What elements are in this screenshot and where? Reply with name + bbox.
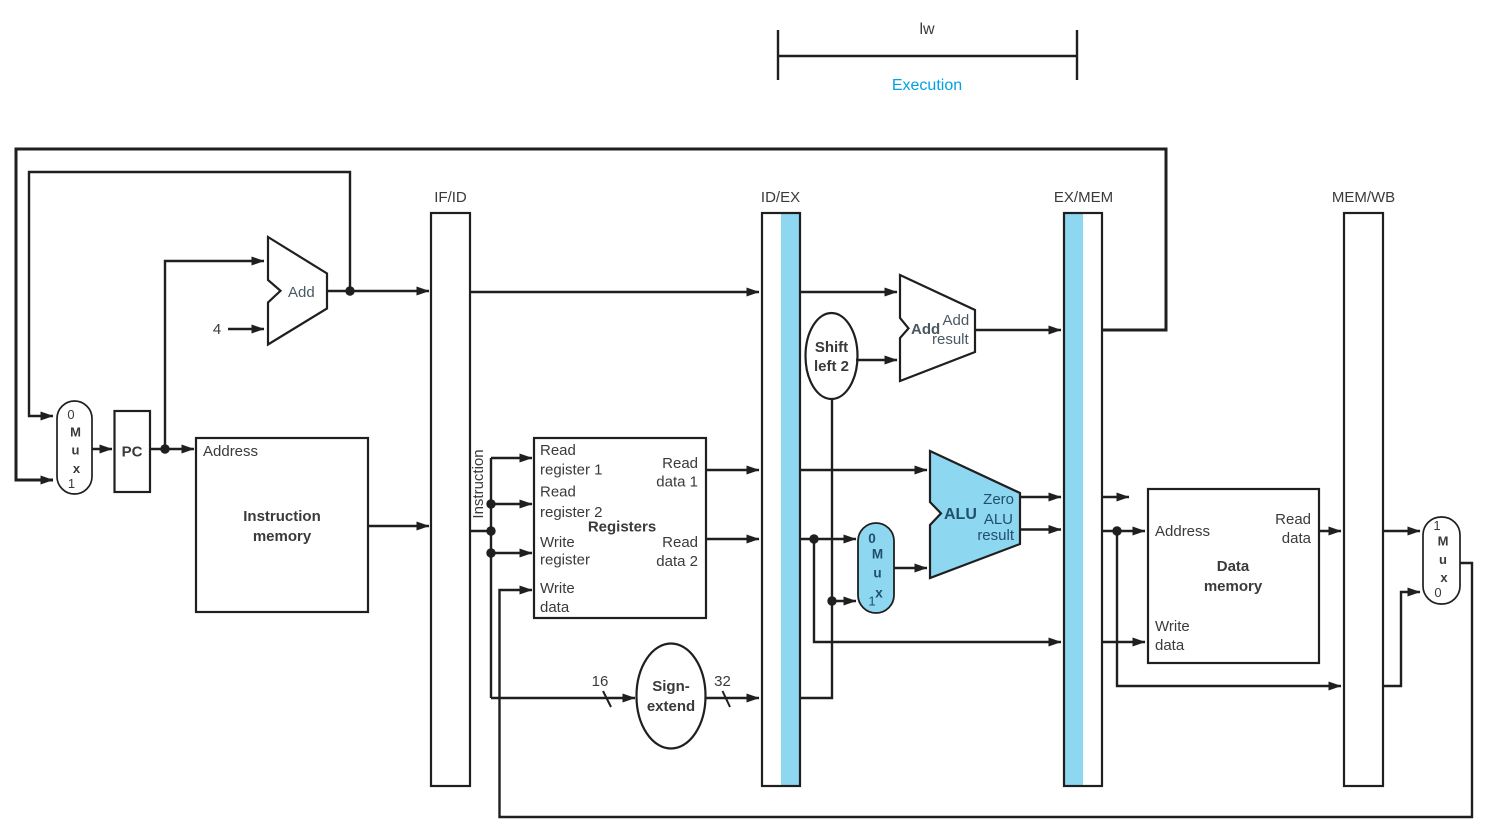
svg-text:PC: PC [122, 444, 143, 461]
svg-text:M: M [872, 547, 883, 562]
svg-text:IF/ID: IF/ID [434, 189, 467, 206]
node ALU result junction [1112, 526, 1121, 535]
wire ALU result bypass to MEM/WB [1117, 531, 1341, 686]
svg-text:Write: Write [540, 580, 575, 597]
wire Add result to EX/MEM [975, 329, 1061, 331]
svg-text:extend: extend [647, 698, 695, 715]
lw stage bracket [778, 21, 1077, 80]
svg-text:result: result [977, 527, 1015, 544]
wire PC to instruction memory [150, 448, 194, 450]
wire ALU result from MEM/WB to mux M3 [1383, 592, 1420, 686]
wire instruction memory to IF/ID [368, 525, 429, 527]
svg-text:data: data [540, 599, 570, 616]
wire PC+4 from IF/ID to ID/EX [470, 291, 759, 293]
wire write data to data memory [1102, 641, 1145, 643]
wire immediate to sign-extend [491, 673, 635, 707]
node instruction junction 3 [486, 548, 495, 557]
mux M3 (write-back select) [1423, 517, 1460, 604]
wire read data 2 to ID/EX [706, 538, 759, 540]
svg-text:ID/EX: ID/EX [761, 189, 800, 206]
svg-text:Write: Write [1155, 618, 1190, 635]
svg-text:x: x [73, 461, 81, 476]
wire read data to MEM/WB [1319, 530, 1341, 532]
svg-text:register: register [540, 552, 590, 569]
pipeline register ID/EX [761, 189, 800, 786]
svg-text:Read: Read [662, 534, 698, 551]
svg-text:lw: lw [919, 21, 935, 38]
svg-text:Data: Data [1217, 558, 1250, 575]
wire PC value to Add [165, 261, 264, 449]
node PC output junction [160, 444, 169, 453]
svg-text:Zero: Zero [983, 491, 1014, 508]
svg-text:ALU: ALU [944, 506, 977, 523]
wire read data 1 to ID/EX [706, 469, 759, 471]
svg-text:4: 4 [213, 321, 221, 338]
wire read data from MEM/WB to mux M3 [1383, 530, 1420, 532]
node Add output junction [345, 286, 354, 295]
mux M2 (ALU operand B) [858, 523, 894, 613]
svg-text:ALU: ALU [984, 511, 1013, 528]
svg-text:1: 1 [68, 476, 75, 491]
svg-text:memory: memory [1204, 578, 1263, 595]
svg-text:u: u [873, 566, 881, 581]
svg-text:M: M [70, 425, 81, 440]
adder Add (branch target) [900, 275, 975, 381]
svg-text:data: data [1282, 530, 1312, 547]
wire ALU result to EX/MEM [1020, 528, 1061, 530]
node immediate junction [827, 596, 836, 605]
svg-text:1: 1 [1433, 518, 1440, 533]
PC register [115, 411, 151, 492]
svg-text:M: M [1438, 534, 1449, 549]
svg-text:Instruction: Instruction [243, 508, 321, 525]
wire ALU zero to EX/MEM [1020, 496, 1061, 498]
wire PC+4 feedback (Add output to PC mux input 0) [29, 172, 350, 416]
wire immediate to mux M2 [832, 600, 856, 602]
svg-text:Shift: Shift [815, 339, 848, 356]
svg-text:register 1: register 1 [540, 462, 603, 479]
svg-text:16: 16 [592, 673, 609, 690]
wire read data 2 from ID/EX to mux M2 [800, 538, 856, 540]
ALU [930, 451, 1020, 578]
svg-text:Address: Address [203, 443, 258, 460]
svg-text:data 1: data 1 [656, 474, 698, 491]
svg-text:Address: Address [1155, 523, 1210, 540]
svg-text:data: data [1155, 637, 1185, 654]
svg-text:x: x [875, 586, 883, 601]
svg-text:Add: Add [943, 312, 970, 329]
wire write-back (mux M3 output to Write data) [500, 563, 1473, 817]
wire mux M1 to PC [92, 448, 112, 450]
registers file [534, 438, 706, 618]
svg-text:Execution: Execution [892, 77, 962, 94]
wire Add output to IF/ID [327, 290, 429, 292]
node read data 2 junction [809, 534, 818, 543]
svg-text:result: result [932, 331, 970, 348]
instruction memory [196, 438, 368, 612]
svg-text:u: u [72, 443, 80, 458]
shift left 2 unit [806, 313, 858, 399]
svg-text:x: x [1440, 570, 1448, 585]
svg-text:EX/MEM: EX/MEM [1054, 189, 1113, 206]
node instruction junction 2 [486, 526, 495, 535]
mux M1 (PC source) [57, 401, 92, 494]
svg-text:1: 1 [868, 594, 875, 609]
svg-text:u: u [1439, 552, 1447, 567]
wire PC+4 from ID/EX to Add [800, 291, 897, 293]
svg-text:left 2: left 2 [814, 358, 849, 375]
svg-text:Read: Read [540, 442, 576, 459]
svg-text:32: 32 [714, 673, 731, 690]
wire read data 2 to EX/MEM [814, 539, 1061, 642]
wire branch-target loop (EX/MEM to PC mux input 1) [16, 149, 1166, 480]
svg-text:Add: Add [288, 284, 315, 301]
svg-text:0: 0 [1434, 585, 1441, 600]
svg-text:data 2: data 2 [656, 553, 698, 570]
wire ALU result to data memory address [1102, 530, 1145, 532]
svg-text:Registers: Registers [588, 519, 656, 536]
wire zero stub from EX/MEM [1102, 496, 1129, 498]
svg-text:0: 0 [67, 407, 74, 422]
svg-text:Instruction: Instruction [470, 449, 487, 518]
pipeline register EX/MEM [1054, 189, 1113, 786]
svg-text:MEM/WB: MEM/WB [1332, 189, 1395, 206]
svg-text:memory: memory [253, 528, 312, 545]
svg-text:Write: Write [540, 534, 575, 551]
node instruction junction 1 [486, 499, 495, 508]
wire shift left 2 to Add [856, 359, 897, 361]
svg-text:0: 0 [868, 531, 876, 546]
wire sign-extended immediate from ID/EX [800, 399, 832, 698]
wire mux M2 to ALU [894, 567, 927, 569]
wire sign-extend output to ID/EX [706, 673, 760, 707]
svg-text:Read: Read [662, 455, 698, 472]
pipeline register IF/ID [431, 189, 470, 786]
data memory [1148, 489, 1319, 663]
pipeline register MEM/WB [1332, 189, 1395, 786]
svg-text:Sign-: Sign- [652, 678, 690, 695]
adder Add (PC+4) [268, 237, 327, 345]
sign-extend unit [637, 644, 706, 749]
svg-text:Read: Read [1275, 511, 1311, 528]
svg-text:Read: Read [540, 484, 576, 501]
wire read data 1 from ID/EX to ALU [800, 469, 927, 471]
constant 4 input to Add [213, 321, 264, 338]
wire instruction bus from IF/ID [470, 458, 532, 698]
